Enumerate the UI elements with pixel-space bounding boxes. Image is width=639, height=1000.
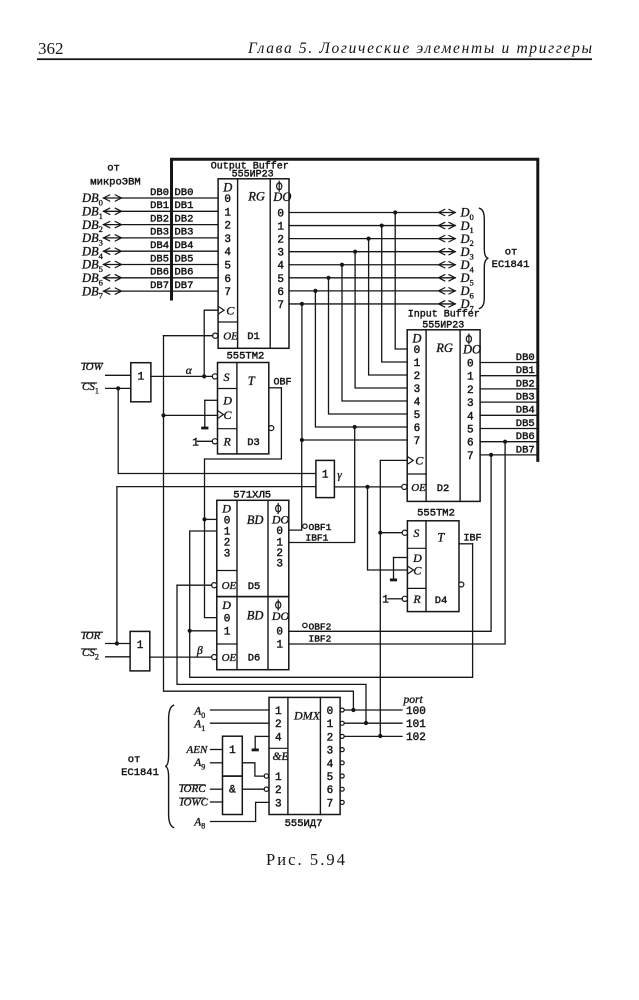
svg-text:T: T <box>437 530 445 544</box>
svg-text:микроЭВМ: микроЭВМ <box>90 177 140 189</box>
svg-text:Рис. 5.94: Рис. 5.94 <box>266 850 345 869</box>
svg-text:C: C <box>224 408 233 422</box>
svg-text:DB2: DB2 <box>175 213 194 225</box>
svg-text:1: 1 <box>382 594 389 606</box>
svg-text:DB6: DB6 <box>150 267 169 279</box>
svg-text:β: β <box>196 645 203 657</box>
svg-text:362: 362 <box>38 39 64 58</box>
svg-text:OE: OE <box>223 330 238 342</box>
svg-text:D: D <box>222 181 232 195</box>
svg-text:0: 0 <box>327 706 334 718</box>
D4 inverted output circle <box>459 582 464 587</box>
svg-text:4: 4 <box>327 759 334 771</box>
wire OBF down and left to D5/D6 inputs <box>205 388 282 618</box>
wire D0 to EC1841 with bidirectional arrow <box>289 212 455 214</box>
svg-text:1: 1 <box>322 469 329 481</box>
svg-text:DB4: DB4 <box>150 240 169 252</box>
wire AEN to gate <box>211 749 223 751</box>
svg-text:D: D <box>411 332 421 346</box>
svg-text:D4: D4 <box>435 595 448 607</box>
D1 clock input C <box>218 306 224 314</box>
wire DB2 from D2 to bus <box>480 388 538 390</box>
junction on DB6 line (IBF2 tap) <box>503 440 507 444</box>
junction on D5 line <box>326 276 330 280</box>
svg-text:D: D <box>222 394 232 408</box>
wire port 101 <box>344 722 402 724</box>
wire DB1 from microcomputer with bidirectional arrow <box>104 210 219 212</box>
svg-text:6: 6 <box>327 785 334 797</box>
svg-text:1: 1 <box>137 640 144 652</box>
wire DB6 from D2 to bus <box>480 441 538 443</box>
wire OBF from D3 output <box>269 387 282 389</box>
terminal OBF2 <box>303 623 307 627</box>
junction on bit7 vertical (tap to OBF1) <box>300 438 304 442</box>
svg-text:4: 4 <box>224 247 231 259</box>
svg-text:DB0: DB0 <box>516 352 535 364</box>
svg-text:AEN: AEN <box>186 744 208 756</box>
wire OBF2 from D6 output 0 up to DB7 <box>289 455 491 631</box>
wire alpha up to C of D1 <box>204 310 218 376</box>
wire OE of D1 down to port 100 line <box>164 335 213 337</box>
svg-text:7: 7 <box>277 300 284 312</box>
junction on D2 line <box>367 237 371 241</box>
svg-text:OBF: OBF <box>274 378 292 389</box>
D1 output column header <box>277 183 282 190</box>
svg-text:102: 102 <box>406 732 426 744</box>
svg-text:1: 1 <box>275 772 282 784</box>
svg-text:DB2: DB2 <box>516 378 535 390</box>
svg-text:0: 0 <box>276 626 283 638</box>
svg-text:0: 0 <box>224 194 231 206</box>
svg-text:DB6: DB6 <box>516 431 535 443</box>
junction IBF to D6 input 1 <box>188 629 192 633</box>
wire DB5 from microcomputer with bidirectional arrow <box>104 264 219 266</box>
wire DB7 from microcomputer with bidirectional arrow <box>104 290 219 292</box>
wire A8 to DMX enable 3 <box>211 802 270 821</box>
wire bit 6 from D1 output down to D2 input 6 <box>315 291 407 427</box>
junction on DB7 line (OBF2 tap) <box>489 453 493 457</box>
svg-text:R: R <box>412 592 421 606</box>
svg-text:DB2: DB2 <box>150 213 169 225</box>
decoder 555ИД7 DMX <box>269 697 340 814</box>
svg-text:DB5: DB5 <box>175 253 194 265</box>
svg-text:1: 1 <box>327 719 334 731</box>
svg-text:7: 7 <box>224 287 231 299</box>
junction gamma to C of D4 <box>365 485 369 489</box>
wire DB3 from microcomputer with bidirectional arrow <box>104 237 219 239</box>
svg-text:7: 7 <box>327 798 334 810</box>
D2 divider above OE <box>407 473 426 475</box>
svg-text:571ХЛ5: 571ХЛ5 <box>233 489 271 501</box>
svg-text:2: 2 <box>327 732 334 744</box>
svg-text:3: 3 <box>467 398 474 410</box>
svg-text:A8: A8 <box>193 816 205 830</box>
wire IOR up to gamma gate <box>117 487 316 644</box>
wire bit 1 from D1 output down to D2 input 1 <box>382 226 408 362</box>
bus frame (left bus, top rail, right bus) <box>172 159 538 460</box>
svg-text:4: 4 <box>414 397 421 409</box>
wire bit 2 from D1 output down to D2 input 2 <box>369 239 408 375</box>
wire IOWC to gate <box>211 801 223 803</box>
svg-text:5: 5 <box>277 274 284 286</box>
wire DB4 from microcomputer with bidirectional arrow <box>104 250 219 252</box>
svg-text:100: 100 <box>406 706 426 718</box>
DMX enable pin circles <box>264 774 268 778</box>
svg-text:α: α <box>186 365 193 377</box>
wire D7 to EC1841 with bidirectional arrow <box>289 303 455 305</box>
wire DB0 from D2 to bus <box>480 362 538 364</box>
svg-text:6: 6 <box>224 274 231 286</box>
svg-text:D: D <box>221 598 231 612</box>
svg-text:BD: BD <box>247 609 264 623</box>
svg-text:DB1: DB1 <box>150 200 169 212</box>
svg-text:IBF: IBF <box>464 534 482 545</box>
svg-text:555ТМ2: 555ТМ2 <box>417 507 455 519</box>
wire DB0 from microcomputer with bidirectional arrow <box>104 197 219 199</box>
svg-text:C: C <box>415 454 424 468</box>
svg-text:1: 1 <box>276 640 283 652</box>
svg-text:T: T <box>248 374 256 388</box>
D6 divider above OE <box>217 643 237 645</box>
gate element 1 (IOR,CS2) <box>130 631 150 671</box>
svg-text:DO: DO <box>271 609 290 623</box>
wire A1 to DMX input 2 <box>211 722 270 724</box>
svg-text:1: 1 <box>229 745 236 757</box>
svg-text:Глава 5. Логические элементы: Глава 5. Логические элементы и триггеры <box>247 40 592 57</box>
terminal OBF1 <box>303 524 307 528</box>
svg-text:6: 6 <box>414 423 421 435</box>
D2 clock input C <box>407 456 413 464</box>
curly brace for EC1841 data bus <box>480 208 489 308</box>
junction on CS1 wire <box>116 386 120 390</box>
svg-text:3: 3 <box>224 548 231 560</box>
DMX divider under address section <box>269 747 288 749</box>
svg-text:от: от <box>128 754 141 766</box>
svg-text:D3: D3 <box>247 437 260 449</box>
D5 output column header <box>276 505 281 512</box>
svg-text:7: 7 <box>414 436 421 448</box>
DMX input 4 grounded <box>255 735 269 737</box>
svg-text:D1: D1 <box>247 331 260 343</box>
svg-text:&E: &E <box>273 751 289 763</box>
svg-text:DB3: DB3 <box>516 392 535 404</box>
svg-text:Input Buffer: Input Buffer <box>408 309 480 321</box>
wire D3 to EC1841 with bidirectional arrow <box>289 251 455 253</box>
wire DB4 from D2 to bus <box>480 414 538 416</box>
svg-text:DB6: DB6 <box>175 267 194 279</box>
svg-text:IBF1: IBF1 <box>306 533 329 544</box>
svg-text:A1: A1 <box>193 719 205 733</box>
wire IORC to gate <box>211 788 223 790</box>
svg-text:1: 1 <box>277 222 284 234</box>
D3 inverted output circle <box>269 426 274 431</box>
svg-text:1: 1 <box>224 207 231 219</box>
gate element 1 (gamma) <box>316 460 335 497</box>
svg-text:2: 2 <box>275 719 282 731</box>
wire port 102 line up to C of D2 <box>380 460 407 736</box>
gate element 1 (AEN, A9) <box>223 736 243 776</box>
junction on port 102 line <box>378 734 382 738</box>
junction on IOR wire <box>115 641 119 645</box>
svg-text:0: 0 <box>277 209 284 221</box>
gate element & (IORC, IOWC) <box>223 776 243 814</box>
svg-text:S: S <box>224 370 230 384</box>
wire OBF1 from D5 output 0 up to data bit7 <box>289 440 302 530</box>
svg-text:0: 0 <box>224 614 231 626</box>
svg-text:D5: D5 <box>248 581 261 593</box>
wire D2 to EC1841 with bidirectional arrow <box>289 238 455 240</box>
svg-text:1: 1 <box>192 437 199 449</box>
junction alpha to C of D1 <box>202 374 206 378</box>
wire port 100 <box>344 709 402 711</box>
svg-text:1: 1 <box>414 358 421 370</box>
svg-text:OE: OE <box>222 652 237 664</box>
svg-text:3: 3 <box>275 798 282 810</box>
svg-text:0: 0 <box>467 359 474 371</box>
svg-text:555ТМ2: 555ТМ2 <box>226 351 264 363</box>
svg-text:DB3: DB3 <box>175 227 194 239</box>
junction port102 to S of D4 <box>378 531 382 535</box>
svg-text:4: 4 <box>467 411 474 423</box>
svg-text:DB4: DB4 <box>516 405 535 417</box>
svg-text:1: 1 <box>224 627 231 639</box>
svg-text:RG: RG <box>247 190 265 204</box>
svg-text:&: & <box>229 784 236 796</box>
svg-text:DB4: DB4 <box>175 240 194 252</box>
wire A9 to gate <box>211 762 223 764</box>
svg-text:D: D <box>221 501 231 515</box>
wire IBF from D4 output <box>459 543 473 545</box>
D3 D input grounded <box>205 399 218 401</box>
svg-text:DB7: DB7 <box>150 280 169 292</box>
D4 D input grounded <box>394 557 408 559</box>
svg-text:ЕС1841: ЕС1841 <box>492 259 530 271</box>
svg-text:DB7: DB7 <box>516 444 535 456</box>
svg-text:OE: OE <box>222 580 237 592</box>
wire port 102 <box>344 735 402 737</box>
svg-text:1: 1 <box>137 371 144 383</box>
svg-text:C: C <box>226 303 235 317</box>
svg-text:DB3: DB3 <box>150 227 169 239</box>
D1 divider above OE <box>218 321 238 323</box>
wire gate 1 output to DMX enable 1 <box>242 763 264 776</box>
svg-text:3: 3 <box>224 234 231 246</box>
svg-text:2: 2 <box>467 385 474 397</box>
svg-text:3: 3 <box>414 384 421 396</box>
svg-text:γ: γ <box>337 469 342 481</box>
svg-text:2: 2 <box>224 221 231 233</box>
svg-text:ЕС1841: ЕС1841 <box>121 767 159 779</box>
svg-text:6: 6 <box>277 287 284 299</box>
svg-text:DB1: DB1 <box>516 365 535 377</box>
svg-text:RG: RG <box>435 341 453 355</box>
wire IOR to gate <box>106 643 131 645</box>
wire CS2 to gate <box>106 656 131 658</box>
junction OBF to D5 input 0 <box>202 517 206 521</box>
junction on bit6 jog (tap to IBF1) <box>353 425 357 429</box>
junction on D0 line <box>393 210 397 214</box>
svg-text:DB1: DB1 <box>175 200 194 212</box>
svg-text:555ИД7: 555ИД7 <box>285 818 323 830</box>
wire beta: gate output to OE of D6 <box>150 656 212 658</box>
svg-text:C: C <box>413 563 422 577</box>
wire D5 to EC1841 with bidirectional arrow <box>289 277 455 279</box>
svg-text:DO: DO <box>272 190 291 204</box>
svg-text:2: 2 <box>275 785 282 797</box>
wire IBF down and left to D5/D6 inputs <box>190 531 473 677</box>
wire D1 to EC1841 with bidirectional arrow <box>289 225 455 227</box>
wire bit 4 from D1 output down to D2 input 4 <box>342 265 407 401</box>
wire bit 3 from D1 output down to D2 input 3 <box>355 252 407 388</box>
D5 divider above OE <box>217 570 237 572</box>
svg-text:DB0: DB0 <box>175 187 194 199</box>
wire DB6 from microcomputer with bidirectional arrow <box>104 277 219 279</box>
svg-text:5: 5 <box>414 410 421 422</box>
svg-text:5: 5 <box>467 425 474 437</box>
wire D6 to EC1841 with bidirectional arrow <box>289 290 455 292</box>
svg-text:1: 1 <box>275 706 282 718</box>
svg-text:A9: A9 <box>193 757 205 771</box>
svg-text:0: 0 <box>414 345 421 357</box>
svg-text:0: 0 <box>224 515 231 527</box>
junction on D6 line <box>313 289 317 293</box>
svg-text:port: port <box>403 694 424 706</box>
svg-text:0: 0 <box>276 526 283 538</box>
wire OE of D5 to port 101 line <box>177 584 212 586</box>
svg-text:3: 3 <box>327 746 334 758</box>
svg-text:7: 7 <box>467 451 474 463</box>
svg-text:2: 2 <box>277 235 284 247</box>
svg-text:DB0: DB0 <box>150 187 169 199</box>
wire bit 7 from D1 output down to D2 input 7 <box>302 304 407 440</box>
junction on D3 line <box>353 250 357 254</box>
svg-text:2: 2 <box>414 371 421 383</box>
wire IBF1 from D5 output 1 up to data bit6 <box>289 427 355 543</box>
svg-text:S: S <box>413 526 419 540</box>
svg-text:DO: DO <box>462 343 481 357</box>
D2 output column header <box>466 336 471 343</box>
wire gamma output to OE of D2 <box>334 486 401 488</box>
svg-text:5: 5 <box>327 772 334 784</box>
header rule <box>37 58 592 60</box>
svg-text:IBF2: IBF2 <box>309 634 332 645</box>
wire bit 0 from D1 output down to D2 input 0 <box>395 213 407 350</box>
wire IBF2 from D6 output 1 up to DB6 <box>289 442 505 644</box>
wire DB5 from D2 to bus <box>480 428 538 430</box>
wire bit 5 from D1 output down to D2 input 5 <box>329 278 408 414</box>
junction on D7 line <box>300 302 304 306</box>
svg-text:101: 101 <box>406 719 426 731</box>
svg-text:DB5: DB5 <box>516 418 535 430</box>
wire DB2 from microcomputer with bidirectional arrow <box>104 224 219 226</box>
wire DB1 from D2 to bus <box>480 375 538 377</box>
wire D4 to EC1841 with bidirectional arrow <box>289 264 455 266</box>
D6 output column header <box>276 602 281 609</box>
svg-text:4: 4 <box>277 261 284 273</box>
svg-text:DO: DO <box>271 512 290 526</box>
gate element 1 (IOW,CS1) <box>131 363 151 402</box>
svg-text:DMX: DMX <box>293 709 321 723</box>
svg-text:от: от <box>107 163 120 175</box>
junction on D4 line <box>340 263 344 267</box>
svg-text:3: 3 <box>277 248 284 260</box>
svg-text:BD: BD <box>247 513 264 527</box>
svg-text:1: 1 <box>467 372 474 384</box>
svg-text:от: от <box>505 246 518 258</box>
wire gate & output to DMX enable 2 <box>242 788 264 790</box>
wire alpha: gate output to S of D3 <box>151 375 212 377</box>
junction on D1 line <box>380 223 384 227</box>
svg-text:OBF2: OBF2 <box>309 621 332 632</box>
svg-text:4: 4 <box>275 732 282 744</box>
buffer D6 571ХЛ5 <box>217 597 289 670</box>
wire A0 to DMX input 1 <box>211 709 270 711</box>
svg-text:D2: D2 <box>437 483 450 495</box>
wire DB3 from D2 to bus <box>480 401 538 403</box>
svg-text:3: 3 <box>276 559 283 571</box>
curly brace for EC1841 control signals <box>165 705 173 827</box>
svg-text:DB7: DB7 <box>175 280 194 292</box>
wire CS1 down to gamma gate <box>118 388 316 473</box>
svg-text:DB5: DB5 <box>150 253 169 265</box>
wire gamma down to C of D4 <box>368 487 408 570</box>
svg-text:6: 6 <box>467 438 474 450</box>
wire IOW to gate <box>106 374 131 376</box>
svg-text:5: 5 <box>224 261 231 273</box>
wire DB7 from D2 to bus <box>480 454 538 456</box>
svg-text:R: R <box>223 435 232 449</box>
wire CS1 to gate <box>106 387 131 389</box>
wire C of D3 from port100 line <box>164 414 218 416</box>
svg-text:OE: OE <box>411 482 426 494</box>
svg-text:D6: D6 <box>248 652 261 664</box>
